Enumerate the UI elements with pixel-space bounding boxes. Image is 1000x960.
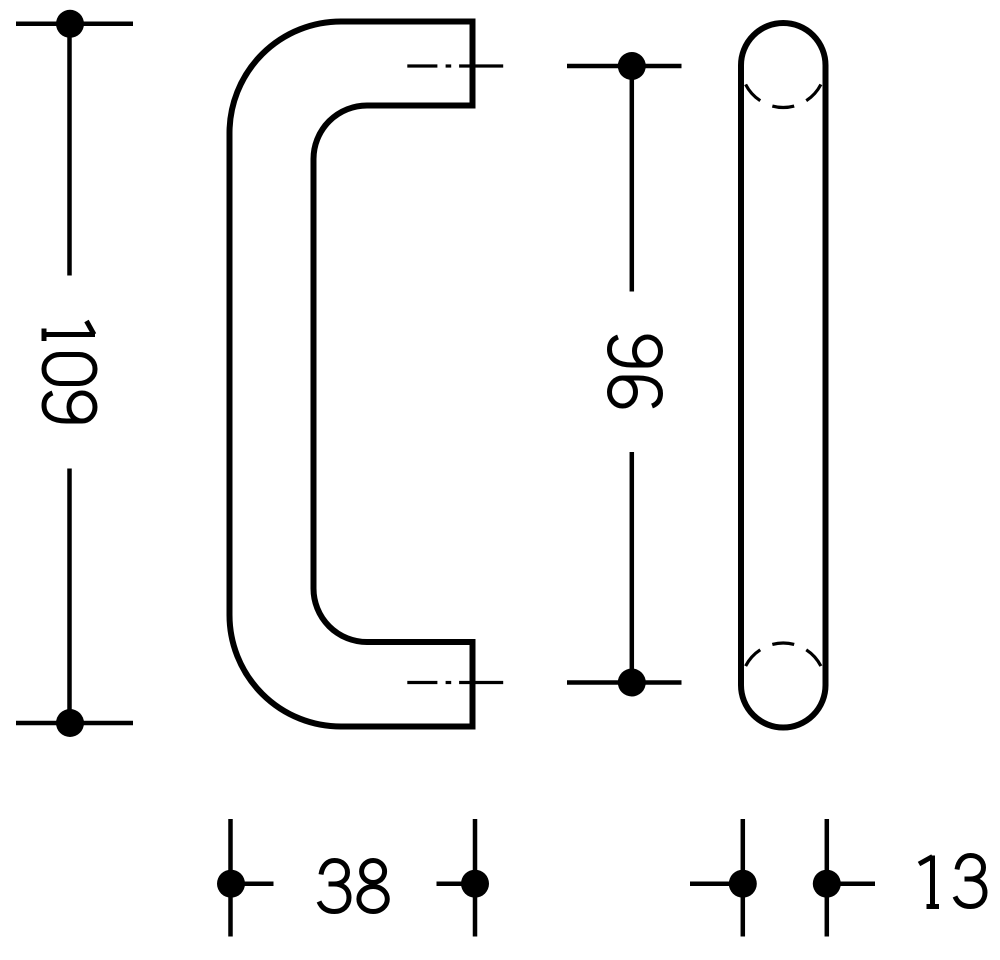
dimension 96: top dot — [618, 52, 646, 80]
dimension 96: top extension line — [567, 64, 682, 69]
dimension 109: lower vertical dimension line — [67, 469, 72, 724]
top hidden circle (dashed arcs) — [746, 84, 821, 107]
dimension 96: bottom extension line — [567, 680, 682, 685]
dimension 13: right extension line — [825, 819, 830, 937]
dimension 13: right arrow stub — [827, 881, 875, 886]
label 109 (rotated) — [44, 321, 95, 421]
dimension 38: right extension line — [473, 819, 478, 937]
label 13 — [919, 856, 985, 907]
handle front view outline (stadium) — [741, 23, 826, 728]
dimension 13: left arrow stub — [690, 881, 743, 886]
dimension 96: lower vertical dimension line — [630, 452, 635, 683]
dimension 96: upper vertical dimension line — [630, 66, 635, 292]
dimension 109: top extension line — [16, 22, 133, 27]
dimension 109: bottom dot — [56, 709, 84, 737]
dimension 38: right dot — [461, 870, 489, 898]
dimension 38: right arrow stub — [437, 881, 476, 886]
dimension 109: bottom extension line — [16, 721, 133, 726]
dimension 13: left dot — [729, 870, 757, 898]
dimension 38: left dot — [217, 870, 245, 898]
bottom hidden circle (dashed arcs) — [746, 643, 821, 666]
dimension 13: right dot — [813, 870, 841, 898]
handle side view outline — [230, 22, 473, 727]
top fixing centerline (dash-dot) — [407, 64, 503, 67]
dimension 13: left extension line — [741, 819, 746, 937]
dimension 38: left arrow stub — [231, 881, 274, 886]
dimension 96: bottom dot — [618, 669, 646, 697]
bottom fixing centerline (dash-dot) — [407, 681, 503, 684]
dimension 38: left extension line — [228, 819, 233, 937]
dimension 109: top dot — [56, 10, 84, 38]
dimension 109: upper vertical dimension line — [67, 24, 72, 276]
label 96 (rotated) — [610, 337, 661, 406]
label 38 — [319, 861, 387, 912]
